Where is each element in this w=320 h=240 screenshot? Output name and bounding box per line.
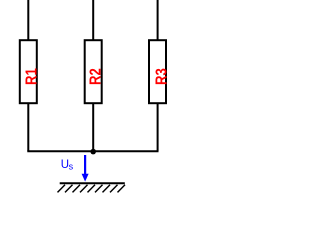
- wire R2 bottom: [92, 103, 94, 151]
- wire bottom bus: [27, 150, 158, 152]
- voltage arrow Us shaft: [84, 155, 86, 176]
- ground hatch 7: [103, 185, 111, 193]
- ground bar: [60, 182, 125, 184]
- ground hatch 4: [80, 185, 88, 193]
- svg-text:R1: R1: [24, 68, 41, 85]
- ground hatch 5: [88, 185, 96, 193]
- ground hatch 1: [58, 185, 66, 193]
- wire top feed R2: [92, 0, 94, 41]
- ground hatch 2: [65, 185, 73, 193]
- wire top feed R3: [157, 0, 159, 41]
- ground hatch 6: [95, 185, 103, 193]
- wire top feed R1: [27, 0, 29, 41]
- ground hatch 8: [110, 185, 118, 193]
- wire R1 bottom: [27, 103, 29, 151]
- resistor R2: [85, 40, 102, 103]
- resistor R1: [20, 40, 37, 103]
- ground hatch 3: [73, 185, 81, 193]
- ground hatch 9: [118, 185, 126, 193]
- svg-text:s: s: [69, 162, 74, 172]
- svg-text:R2: R2: [88, 68, 105, 85]
- svg-text:R3: R3: [154, 68, 171, 85]
- node junction dot: [90, 149, 96, 155]
- resistor R3: [149, 40, 166, 103]
- wire R3 bottom: [157, 103, 159, 151]
- voltage arrow Us head: [82, 174, 89, 182]
